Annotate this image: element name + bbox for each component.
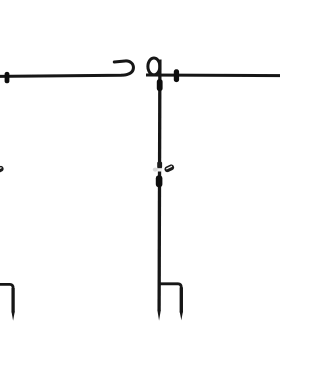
right stand: ferrule below arm junction [157,79,163,91]
right stand: light joint gap in pole [157,168,162,171]
left stand: hanger arm with hook [0,61,133,76]
right stand: adjuster ferrule below joint [156,175,163,187]
right stand: base prong spike [180,287,183,312]
right stand: gray shading left of joint [153,168,158,172]
left stand: base prong spike [11,288,14,313]
right stand: main pole [157,60,161,312]
left stand: rubber stopper knob on arm [5,72,10,83]
right stand: pole ground spike tip [157,311,160,321]
right stand: rubber stopper knob on arm [174,69,179,82]
right stand: base bar [158,284,181,313]
right stand: decorative loop at pole top [148,58,160,75]
right stand: hanger arm [146,74,282,78]
right stand: collar above pole joint [157,162,162,168]
left stand: base bar [0,284,13,312]
left stand: clip at pole (pole off-frame, clip tip visible at edge) [0,165,5,175]
right stand: snap clip hanging at joint [164,164,176,174]
